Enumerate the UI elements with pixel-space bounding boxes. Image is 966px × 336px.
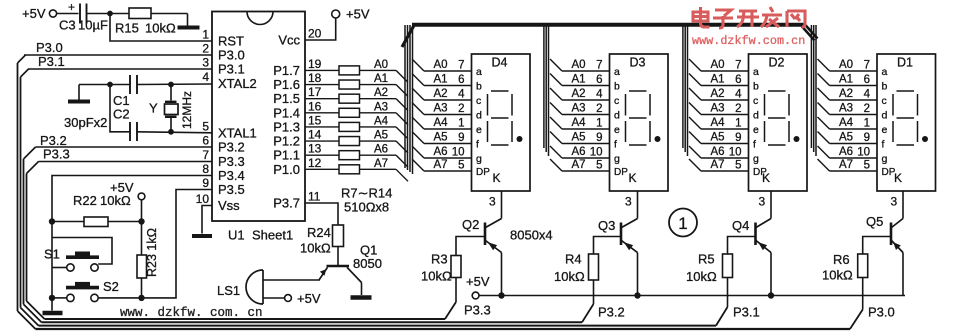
svg-text:Q4: Q4 <box>732 218 749 233</box>
svg-text:P1.4: P1.4 <box>273 105 300 120</box>
svg-text:A6: A6 <box>839 146 853 158</box>
svg-text:A0: A0 <box>434 59 448 71</box>
power +5V (emitter rail) <box>466 274 905 299</box>
svg-text:b: b <box>476 81 482 93</box>
wire S1 right leg <box>52 238 112 265</box>
svg-text:Vss: Vss <box>218 198 240 213</box>
svg-text:K: K <box>493 171 501 185</box>
svg-text:P3.1: P3.1 <box>218 62 245 77</box>
svg-text:c: c <box>882 95 887 107</box>
svg-text:2: 2 <box>596 103 602 115</box>
svg-text:c: c <box>476 95 481 107</box>
wire P3.2 to pin6 <box>24 147 213 159</box>
switch S2 <box>52 279 119 302</box>
ground (R15) <box>178 14 200 28</box>
node P3.3 (bottom label) <box>464 303 491 318</box>
svg-text:10: 10 <box>452 147 465 159</box>
svg-text:P3.0: P3.0 <box>868 305 895 320</box>
svg-text:20: 20 <box>308 27 322 41</box>
svg-text:www.dzkfw.com.cn: www.dzkfw.com.cn <box>692 34 805 48</box>
ground (crystal) <box>68 85 90 102</box>
transistor Q3 8050 <box>598 191 638 296</box>
wire A-bus bundle vertical <box>405 25 413 174</box>
svg-text:g: g <box>753 153 759 165</box>
svg-text:A4: A4 <box>839 117 854 129</box>
svg-text:d: d <box>614 110 620 122</box>
node Q3 emitter junction <box>634 292 640 298</box>
svg-text:XTAL2: XTAL2 <box>218 76 257 91</box>
svg-text:D2: D2 <box>769 56 785 70</box>
switch S1 <box>44 247 99 272</box>
node R22 left junction <box>49 218 55 224</box>
ground (Q1 collector) <box>351 295 372 300</box>
svg-text:A5: A5 <box>839 132 853 144</box>
svg-text:e: e <box>753 124 759 136</box>
wire P3.4 to switch block <box>52 176 212 222</box>
transistor Q4 8050 <box>732 191 771 296</box>
wire left gnd vertical <box>51 222 53 298</box>
svg-text:A7: A7 <box>434 159 448 171</box>
power +5V (LS1) <box>285 291 321 306</box>
svg-text:3: 3 <box>759 195 766 209</box>
svg-text:7: 7 <box>458 60 464 72</box>
svg-text:D4: D4 <box>492 56 508 70</box>
power +5V (Vcc pin20) <box>305 7 370 41</box>
svg-text:K: K <box>762 171 770 185</box>
wire XTAL2 line <box>137 83 212 86</box>
speaker LS1 <box>217 270 320 304</box>
svg-text:c: c <box>753 95 758 107</box>
svg-text:9: 9 <box>735 132 741 144</box>
svg-text:A3: A3 <box>572 103 586 115</box>
svg-text:8: 8 <box>202 162 209 176</box>
resistor R23 1k <box>137 222 159 298</box>
svg-text:6: 6 <box>202 134 209 148</box>
svg-text:2: 2 <box>202 42 209 56</box>
svg-text:17: 17 <box>308 85 322 99</box>
svg-text:A7: A7 <box>572 159 586 171</box>
node R23 bottom junction <box>138 295 144 301</box>
svg-text:5: 5 <box>596 160 602 172</box>
svg-text:P3.4: P3.4 <box>218 168 245 183</box>
node P3.1 (top label) <box>38 54 65 69</box>
transistor Q2 8050 <box>462 191 502 296</box>
svg-text:e: e <box>614 124 620 136</box>
node P3.0 (top label) <box>36 40 63 55</box>
wire gnd to C1 <box>79 84 130 86</box>
svg-text:P3.0: P3.0 <box>36 40 63 55</box>
svg-text:10kΩ: 10kΩ <box>100 193 131 208</box>
node C-gnd junction <box>107 82 113 88</box>
svg-text:D3: D3 <box>630 56 646 70</box>
svg-text:R24: R24 <box>307 225 331 240</box>
wire node to RST pin1 <box>110 14 212 42</box>
wire gnd vertical to C2 <box>110 85 130 132</box>
watermark red url <box>692 34 805 48</box>
svg-text:d: d <box>882 110 888 122</box>
wire P3.3 bottom bus <box>27 278 457 320</box>
svg-text:P3.3: P3.3 <box>218 154 245 169</box>
svg-text:A0: A0 <box>839 59 853 71</box>
svg-text:2: 2 <box>458 103 464 115</box>
resistor R3 10k <box>421 237 484 284</box>
svg-text:A5: A5 <box>374 130 388 142</box>
wire P3.0 bevel <box>18 55 26 63</box>
svg-text:1: 1 <box>735 118 741 130</box>
wire P3.1 bevel <box>21 69 29 77</box>
svg-text:10kΩ: 10kΩ <box>145 21 176 36</box>
svg-text:f: f <box>753 139 756 151</box>
svg-text:3: 3 <box>202 56 209 70</box>
svg-text:P1.5: P1.5 <box>273 91 300 106</box>
svg-text:A4: A4 <box>711 117 726 129</box>
svg-text:2: 2 <box>735 103 741 115</box>
svg-text:7: 7 <box>735 60 741 72</box>
svg-text:U1: U1 <box>228 228 245 243</box>
svg-text:A7: A7 <box>374 158 388 170</box>
svg-text:4: 4 <box>458 89 465 101</box>
wire A-bus top bevel <box>402 25 415 48</box>
ground (switches) <box>43 298 63 313</box>
wire P3.0 left vertical <box>17 63 19 311</box>
svg-text:+: + <box>68 0 75 14</box>
svg-text:P3.2: P3.2 <box>598 305 625 320</box>
svg-text:A1: A1 <box>711 74 725 86</box>
svg-text:a: a <box>476 66 482 78</box>
svg-text:5: 5 <box>458 160 464 172</box>
svg-text:A3: A3 <box>839 103 853 115</box>
value 8050x4 <box>510 228 553 243</box>
svg-text:3: 3 <box>891 195 898 209</box>
svg-text:A1: A1 <box>374 73 388 85</box>
7-segment display D3 <box>544 25 668 209</box>
svg-text:3: 3 <box>625 195 632 209</box>
svg-text:R7∼R14: R7∼R14 <box>341 186 392 201</box>
svg-text:Sheet1: Sheet1 <box>252 228 293 243</box>
svg-text:16: 16 <box>308 99 322 113</box>
transistor Q1 8050 <box>319 243 382 296</box>
svg-text:7: 7 <box>864 60 870 72</box>
svg-text:510Ωx8: 510Ωx8 <box>344 200 389 215</box>
svg-text:b: b <box>614 81 620 93</box>
svg-text:R23 1kΩ: R23 1kΩ <box>145 228 159 277</box>
svg-text:30pFx2: 30pFx2 <box>64 115 107 130</box>
svg-text:f: f <box>614 139 617 151</box>
svg-text:C3: C3 <box>59 18 76 33</box>
transistor Q5 8050 <box>866 191 903 296</box>
svg-text:A1: A1 <box>839 74 853 86</box>
svg-text:1: 1 <box>596 118 602 130</box>
svg-text:A4: A4 <box>572 117 587 129</box>
capacitor C1 30pF <box>113 75 137 108</box>
svg-text:XTAL1: XTAL1 <box>218 126 257 141</box>
capacitor C2 30pF <box>113 107 137 142</box>
node Q2 emitter junction <box>498 292 504 298</box>
svg-text:10: 10 <box>729 147 742 159</box>
svg-text:a: a <box>753 66 759 78</box>
resistor R4 10k <box>554 237 620 285</box>
svg-text:P1.2: P1.2 <box>273 134 300 149</box>
svg-text:A5: A5 <box>711 132 725 144</box>
svg-text:e: e <box>882 124 888 136</box>
node P3.2 (bottom label) <box>598 305 625 320</box>
svg-text:A1: A1 <box>434 74 448 86</box>
svg-text:A2: A2 <box>374 87 388 99</box>
svg-text:P1.0: P1.0 <box>273 162 300 177</box>
wire P3.3 left vertical <box>26 174 28 302</box>
wire P3.5 to S2 <box>98 190 212 298</box>
svg-text:6: 6 <box>596 74 602 86</box>
svg-text:10kΩ: 10kΩ <box>686 269 717 284</box>
svg-text:10: 10 <box>590 147 603 159</box>
svg-text:R5: R5 <box>698 252 715 267</box>
svg-text:K: K <box>894 171 902 185</box>
wire P3.1 left vertical <box>20 77 22 308</box>
svg-text:e: e <box>476 124 482 136</box>
node circled 1 marker <box>669 209 697 237</box>
node R23 top junction <box>138 218 144 224</box>
svg-text:+5V: +5V <box>22 6 46 21</box>
svg-text:P3.3: P3.3 <box>464 303 491 318</box>
resistor R24 10k <box>300 203 344 256</box>
node P3.0 (bottom label) <box>868 305 895 320</box>
node P3.2 (left label) <box>40 133 67 148</box>
svg-text:6: 6 <box>735 74 741 86</box>
svg-text:Vcc: Vcc <box>278 33 300 48</box>
node P3.1 (bottom label) <box>733 305 760 320</box>
svg-text:14: 14 <box>308 128 322 142</box>
svg-text:A5: A5 <box>572 132 586 144</box>
svg-text:A6: A6 <box>374 144 388 156</box>
svg-text:A0: A0 <box>572 59 586 71</box>
7-segment display D1 <box>811 25 935 209</box>
resistor R15 10k <box>110 8 188 36</box>
svg-text:g: g <box>614 153 620 165</box>
svg-text:S2: S2 <box>103 279 119 294</box>
svg-text:6: 6 <box>458 74 464 86</box>
svg-text:A6: A6 <box>572 146 586 158</box>
svg-text:K: K <box>629 171 637 185</box>
svg-text:R15: R15 <box>115 21 139 36</box>
svg-text:b: b <box>882 81 888 93</box>
svg-text:8050: 8050 <box>353 256 382 271</box>
svg-text:10kΩ: 10kΩ <box>554 269 585 284</box>
svg-text:A3: A3 <box>374 101 388 113</box>
svg-text:4: 4 <box>864 89 871 101</box>
svg-text:1: 1 <box>202 28 209 42</box>
svg-text:1: 1 <box>458 118 464 130</box>
svg-text:P3.1: P3.1 <box>733 305 760 320</box>
svg-text:9: 9 <box>458 132 464 144</box>
node RST junction <box>107 11 113 17</box>
svg-text:+5V: +5V <box>297 291 321 306</box>
svg-text:13: 13 <box>308 142 322 156</box>
svg-text:7: 7 <box>596 60 602 72</box>
svg-text:RST: RST <box>218 34 244 49</box>
svg-text:LS1: LS1 <box>217 283 240 298</box>
svg-text:10µF: 10µF <box>78 18 108 33</box>
svg-text:Y: Y <box>149 101 158 116</box>
svg-text:P3.1: P3.1 <box>38 54 65 69</box>
wire top bus <box>412 23 806 27</box>
svg-text:d: d <box>476 110 482 122</box>
svg-text:5: 5 <box>735 160 741 172</box>
7-segment display D4 <box>412 54 530 209</box>
svg-text:P3.2: P3.2 <box>218 140 245 155</box>
svg-text:8050x4: 8050x4 <box>510 228 553 243</box>
svg-text:A3: A3 <box>434 103 448 115</box>
svg-text:12MHz: 12MHz <box>180 91 194 129</box>
svg-text:A2: A2 <box>434 88 448 100</box>
svg-text:R22: R22 <box>73 193 97 208</box>
op-amp U1 microcontroller Sheet1 <box>196 12 322 243</box>
resistor network R7~R14 510ohm x8 <box>305 59 408 215</box>
svg-text:A3: A3 <box>711 103 725 115</box>
svg-text:P1.1: P1.1 <box>273 148 300 163</box>
svg-text:11: 11 <box>308 190 321 204</box>
svg-text:g: g <box>476 153 482 165</box>
svg-text:www. dzkfw. com. cn: www. dzkfw. com. cn <box>120 306 263 320</box>
svg-text:6: 6 <box>864 74 870 86</box>
svg-text:P3.7: P3.7 <box>273 196 300 211</box>
svg-text:Q5: Q5 <box>866 214 883 229</box>
svg-text:DP: DP <box>476 167 490 178</box>
svg-text:A5: A5 <box>434 132 448 144</box>
wire P3.2 bottom bus <box>24 280 594 322</box>
watermark bottom url <box>120 306 263 320</box>
svg-text:9: 9 <box>596 132 602 144</box>
svg-text:P1.6: P1.6 <box>273 77 300 92</box>
watermark red chinese text <box>693 7 805 28</box>
svg-text:+5V: +5V <box>466 274 490 289</box>
7-segment display D2 <box>683 25 807 209</box>
svg-text:A2: A2 <box>711 88 725 100</box>
svg-text:A0: A0 <box>711 59 725 71</box>
power +5V (switch block) <box>110 180 145 222</box>
svg-text:R3: R3 <box>431 252 448 267</box>
svg-text:f: f <box>476 139 479 151</box>
wire P3.0 bottom bus <box>18 278 863 330</box>
svg-text:b: b <box>753 81 759 93</box>
svg-text:DP: DP <box>614 167 628 178</box>
svg-text:+5V: +5V <box>110 180 134 195</box>
svg-text:15: 15 <box>308 113 322 127</box>
svg-text:D1: D1 <box>897 56 913 70</box>
svg-text:P3.5: P3.5 <box>218 182 245 197</box>
resistor R5 10k <box>686 237 755 285</box>
svg-text:10kΩ: 10kΩ <box>421 269 452 284</box>
svg-text:A6: A6 <box>711 146 725 158</box>
svg-text:1: 1 <box>678 214 687 233</box>
svg-text:P1.7: P1.7 <box>273 63 300 78</box>
wire P3.1 to pin3 <box>28 68 212 70</box>
svg-text:a: a <box>882 66 888 78</box>
svg-text:g: g <box>882 153 888 165</box>
svg-text:1: 1 <box>864 118 870 130</box>
svg-text:4: 4 <box>596 89 603 101</box>
svg-text:4: 4 <box>735 89 742 101</box>
svg-text:9: 9 <box>864 132 870 144</box>
svg-text:10kΩ: 10kΩ <box>300 241 331 256</box>
svg-text:18: 18 <box>308 71 322 85</box>
svg-text:d: d <box>753 110 759 122</box>
svg-text:a: a <box>614 66 620 78</box>
wire top bus right bevel <box>802 24 818 41</box>
wire P3.0 to pin2 <box>24 54 212 56</box>
svg-text:A2: A2 <box>572 88 586 100</box>
svg-text:3: 3 <box>489 195 496 209</box>
value 30pFx2 <box>64 115 107 130</box>
svg-text:4: 4 <box>202 70 209 84</box>
wire P3.3 to pin7 <box>27 162 213 174</box>
node S2 left junction <box>49 295 55 301</box>
svg-text:A7: A7 <box>839 159 853 171</box>
capacitor C3 10uF <box>59 0 108 33</box>
svg-text:10: 10 <box>857 147 870 159</box>
svg-text:C2: C2 <box>113 107 130 122</box>
node P3.3 (left label) <box>43 147 70 162</box>
ground (Vss pin10) <box>192 206 212 237</box>
svg-text:P3.3: P3.3 <box>43 147 70 162</box>
svg-text:19: 19 <box>308 57 322 71</box>
wire XTAL1 line <box>137 132 212 133</box>
svg-text:Q3: Q3 <box>598 218 615 233</box>
wire C3 to node <box>87 13 111 15</box>
svg-text:5: 5 <box>202 120 209 134</box>
svg-text:A4: A4 <box>374 115 389 127</box>
crystal Y 12MHz <box>149 85 194 132</box>
svg-text:7: 7 <box>202 148 209 162</box>
node crystal bottom junction <box>168 129 174 135</box>
resistor R22 10k <box>52 193 142 227</box>
svg-text:P1.3: P1.3 <box>273 119 300 134</box>
wire P3.2 left vertical <box>23 159 25 304</box>
svg-text:A6: A6 <box>434 146 448 158</box>
svg-text:10kΩ: 10kΩ <box>822 268 853 283</box>
svg-text:P3.0: P3.0 <box>218 48 245 63</box>
node crystal top junction <box>168 82 174 88</box>
svg-text:A1: A1 <box>572 74 586 86</box>
svg-text:A4: A4 <box>434 117 449 129</box>
svg-text:Q2: Q2 <box>462 217 479 232</box>
svg-text:c: c <box>614 95 619 107</box>
svg-text:R6: R6 <box>833 252 850 267</box>
svg-text:9: 9 <box>202 176 209 190</box>
svg-text:+5V: +5V <box>346 7 370 22</box>
svg-text:R4: R4 <box>565 252 582 267</box>
svg-text:f: f <box>882 139 885 151</box>
svg-text:A7: A7 <box>711 159 725 171</box>
svg-text:10: 10 <box>196 192 210 206</box>
svg-text:2: 2 <box>864 103 870 115</box>
resistor R6 10k <box>822 237 890 283</box>
svg-text:5: 5 <box>864 160 870 172</box>
svg-text:A0: A0 <box>374 59 388 71</box>
power +5V terminal (reset circuit) <box>22 6 79 21</box>
svg-text:A2: A2 <box>839 88 853 100</box>
svg-text:12: 12 <box>308 156 322 170</box>
node Q4 emitter junction <box>768 292 774 298</box>
wire P3.1 bottom bus <box>21 278 728 326</box>
